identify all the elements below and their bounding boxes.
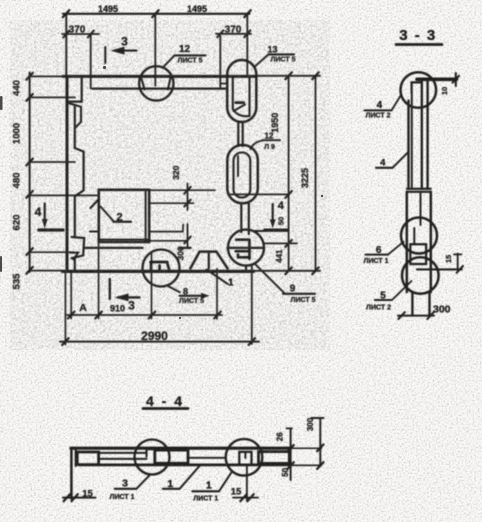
callout 9 ЛИСТ 5 bbox=[254, 263, 284, 293]
scan speckles bbox=[0, 66, 323, 319]
stadium 1 inner element bbox=[233, 77, 250, 117]
element 2 square bbox=[99, 190, 149, 242]
extension from wall to right dim lines y=75.5 bbox=[256, 75, 320, 77]
extension from trapezoid down to dim line bbox=[216, 269, 218, 319]
left dim extension lines bbox=[30, 75, 63, 77]
bottom weld circle (5 ЛИСТ 2) bbox=[402, 257, 439, 294]
extension vertical x=247.3 top right bbox=[246, 15, 248, 76]
right 370 dimension bbox=[216, 33, 251, 35]
extension line y=243.4 bbox=[265, 242, 298, 244]
extension from right circle down + right 15 dim bbox=[246, 466, 248, 501]
flange end bar and tick bbox=[455, 73, 457, 86]
right wall stadium 2 bbox=[227, 145, 257, 203]
label 1 with leader (trapezoid) bbox=[207, 270, 228, 285]
hook inside top circle bbox=[412, 82, 421, 92]
dim 300 vertical (mid bottom) bbox=[187, 224, 189, 247]
inner line after box bbox=[188, 457, 226, 459]
weld circle right (1 ЛИСТ 1) bbox=[226, 439, 263, 476]
extension vertical x=220.3 down to inner face bbox=[220, 36, 227, 89]
left 370 dimension bbox=[62, 33, 99, 35]
weld circle 9 (bottom right) bbox=[228, 230, 264, 266]
trapezoid key in bottom wall bbox=[190, 252, 227, 269]
label 2 with leader bbox=[101, 207, 114, 222]
right dim verticals 1950 and 3225 bbox=[288, 76, 290, 271]
extension lines right of element 2 bbox=[150, 189, 215, 191]
bottom wall outer extension to right dims bbox=[254, 270, 320, 272]
right wall below circle 9 bbox=[245, 266, 247, 272]
left 15 dim bbox=[63, 497, 96, 499]
dim 320 vertical bbox=[187, 184, 189, 211]
weld circle 12 (top middle) bbox=[139, 66, 173, 100]
panel bottom edge bbox=[79, 464, 291, 467]
step between leaves bbox=[407, 189, 431, 192]
staple symbol inside circle 9 bbox=[236, 240, 250, 259]
tick on element 2 left edge bbox=[91, 200, 98, 208]
right dim line 1 (26 / 50) bbox=[290, 429, 292, 481]
lower leaf verticals bbox=[406, 192, 409, 292]
joint box inside bbox=[410, 244, 426, 264]
bottom dim line 300 bbox=[398, 315, 434, 317]
right wall stadium 1 bbox=[227, 60, 256, 122]
wall below bottom circle bbox=[412, 292, 429, 316]
joint lines inside circle 12 bbox=[141, 77, 171, 89]
extension line from 370 right tick down to inner face bbox=[90, 35, 92, 89]
extension vertical left x=66.3 bbox=[65, 15, 67, 76]
left dimension line column bbox=[29, 73, 31, 273]
left wall inner face segments bbox=[74, 106, 76, 269]
left wall corner block top-left bbox=[69, 76, 82, 101]
left wall key (middle) bbox=[75, 148, 84, 196]
dimension line A 910 bbox=[66, 314, 222, 316]
right wall outer extension down to 2990 bbox=[251, 266, 253, 344]
weld circle 8 (bottom wall left) bbox=[143, 250, 180, 287]
panel top edge bbox=[71, 447, 291, 450]
weld circle left (3 ЛИСТ 1) bbox=[135, 440, 170, 475]
section mark 3 (bottom) bbox=[109, 279, 111, 299]
left rib verticals bbox=[70, 448, 73, 498]
right dim line 2 (300) bbox=[319, 418, 321, 466]
top flange going right bbox=[417, 78, 457, 82]
dimension line 2990 bbox=[60, 341, 259, 343]
extension line y=194.5 bbox=[228, 193, 289, 195]
top weld circle (4 ЛИСТ 2) bbox=[401, 72, 437, 108]
inner plate double lines bbox=[99, 453, 147, 459]
middle insert box bbox=[155, 450, 188, 463]
15 dim line going right bbox=[417, 268, 462, 270]
wall panel verticals (upper leaf) bbox=[407, 101, 409, 189]
left dim ticks bbox=[26, 73, 32, 274]
heavier grain over plan area bbox=[10, 20, 330, 350]
right slot box bbox=[259, 452, 290, 464]
top wall inner face bbox=[93, 87, 228, 89]
left wall outer face bbox=[66, 76, 69, 270]
callout 8 ЛИСТ 5 with arrow bbox=[167, 285, 180, 292]
hook inside right circle bbox=[239, 452, 251, 465]
right dim ticks bbox=[285, 72, 318, 274]
bottom wall inner face segments bbox=[84, 247, 264, 249]
step inside left circle bbox=[147, 449, 155, 456]
top wall outer face bbox=[63, 75, 256, 78]
staple symbol inside circle 8 bbox=[151, 262, 170, 271]
bottom wall outer face bbox=[62, 270, 253, 273]
left wall key (bottom corner block) bbox=[72, 237, 85, 258]
section mark 3 (top) bbox=[104, 47, 106, 63]
top dimension line 1495+1495 bbox=[63, 13, 250, 15]
middle weld circle (6 ЛИСТ 1) bbox=[401, 218, 437, 254]
connector lines between stadium 2 and circle 9 bbox=[241, 203, 249, 234]
connector lines between stadium 1 and 2 bbox=[238, 122, 242, 146]
stadium 2 inner element bbox=[234, 153, 251, 198]
extension vertical middle x=155.3 from dim to wall bbox=[154, 15, 156, 86]
left slot box bbox=[77, 452, 98, 465]
